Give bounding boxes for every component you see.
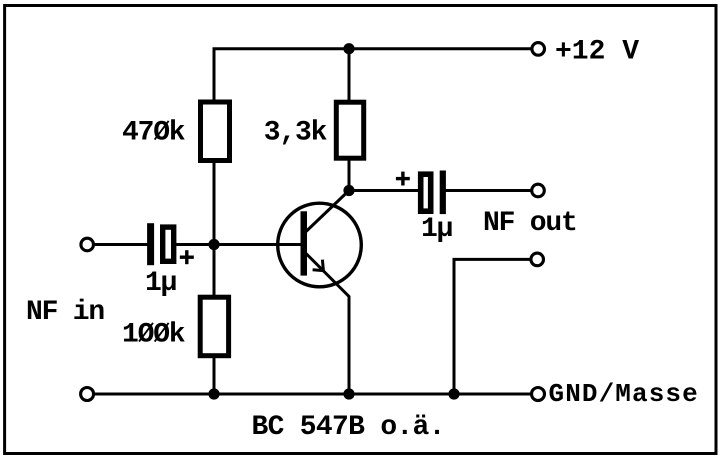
wire base node to transistor base <box>214 243 301 246</box>
wire collector node to output cap <box>349 189 419 192</box>
transistor Q1 BC547B circle <box>278 203 362 287</box>
svg-text:3,3k: 3,3k <box>264 118 328 149</box>
terminal NF out <box>532 184 545 197</box>
resistor R1 470k <box>201 102 230 161</box>
capacitor C2 output 1u: solid plate <box>440 171 446 215</box>
junction node ground / output return <box>448 388 459 399</box>
wire 470k bottom through base node to 100k top <box>213 161 216 296</box>
svg-text:1µ: 1µ <box>421 214 453 245</box>
wire input cap to base node <box>175 243 214 246</box>
capacitor C2 output 1u: hollow plus plate <box>421 174 431 211</box>
svg-text:BC 547B o.ä.: BC 547B o.ä. <box>252 412 445 443</box>
transistor Q1 emitter arrow <box>313 260 324 271</box>
wire 3.3k top <box>348 49 351 102</box>
wire 100k bottom to ground rail <box>213 357 216 394</box>
terminal NF in <box>81 238 94 251</box>
transistor Q1 base bar <box>301 211 308 275</box>
junction node ground / emitter <box>343 388 354 399</box>
svg-text:47Øk: 47Øk <box>122 118 186 149</box>
wire ground rail <box>95 393 531 396</box>
transistor Q1 collector line <box>306 191 349 232</box>
wire output cap to NF out terminal <box>445 189 531 192</box>
label C1 plus sign <box>180 250 194 264</box>
junction node collector / cap C2 <box>343 185 354 196</box>
terminal ground left <box>81 388 94 401</box>
wire second output terminal down to ground <box>454 259 537 394</box>
capacitor C1 input 1u: solid plate <box>147 223 154 265</box>
junction node base / divider <box>208 239 219 250</box>
svg-text:NF in: NF in <box>26 297 104 328</box>
resistor R2 3,3k <box>336 102 363 158</box>
svg-text:NF out: NF out <box>483 208 577 239</box>
wire top rail <box>214 49 531 100</box>
svg-text:+12 V: +12 V <box>555 37 639 68</box>
label C2 plus sign <box>396 172 410 186</box>
resistor R3 100k <box>200 297 228 356</box>
wire input terminal to input cap <box>95 243 149 246</box>
svg-text:1µ: 1µ <box>145 268 177 299</box>
junction node top rail / 3,3k <box>343 43 354 54</box>
terminal +12V <box>532 43 545 56</box>
svg-text:GND/Masse: GND/Masse <box>549 379 699 409</box>
transistor Q1 emitter line <box>306 254 349 395</box>
wire 3.3k bottom to collector node <box>348 159 351 191</box>
terminal GND <box>532 388 545 401</box>
capacitor C1 input 1u: hollow plus plate <box>163 227 174 261</box>
terminal output return <box>531 253 544 266</box>
svg-text:1ØØk: 1ØØk <box>122 320 186 351</box>
junction node ground / 100k <box>208 388 219 399</box>
